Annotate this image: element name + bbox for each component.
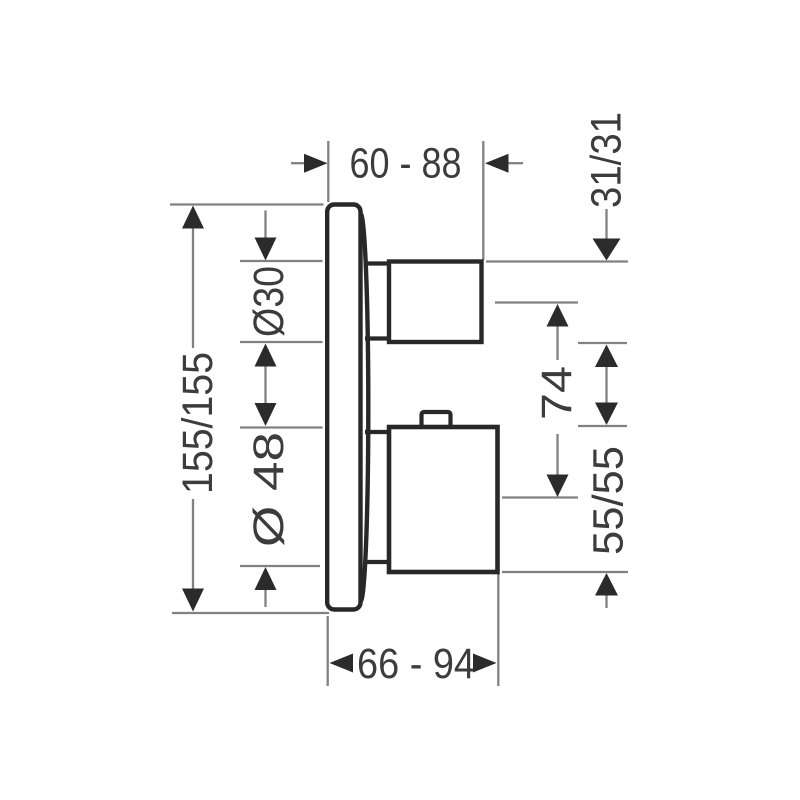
wire centerline-knob1 [495,301,578,303]
stem upper [365,264,390,339]
wire ext-66-94-left [327,616,329,686]
wire dim-60-88-right-tail [508,162,523,164]
wire centerline-knob2 [502,496,578,498]
stem lower [365,432,390,562]
arrow left-double up [255,344,277,367]
wire ext-d48-top [240,426,323,428]
svg-text:74: 74 [533,366,581,420]
tab on lower knob [422,412,451,428]
wire ext-66-94-right [497,574,499,686]
wire dim-right-double-shaft [605,366,607,404]
wire ext-d48-bottom [240,565,320,567]
wire dim-d30-shaft-top [264,211,266,241]
escutcheon plate [327,205,368,610]
arrow 66-94 right [473,654,497,673]
wire ext-d30-bottom [240,341,323,343]
svg-text:31/31: 31/31 [583,112,631,208]
wire dim-55-55-shaft [605,594,607,608]
arrow d48 bottom [255,567,277,590]
wire dim-74-shaft-bottom [556,434,558,475]
wire ext-knob2-bottom-right [502,571,628,573]
arrow d30 top [255,238,277,261]
knob upper [389,262,482,343]
arrow 60-88 left [304,154,328,173]
wire ext-d30-top [240,260,323,262]
arrow 155 top [182,206,204,229]
svg-text:Ø 48: Ø 48 [245,432,293,547]
arrow 74 down [547,475,569,498]
arrow 55-55 up [595,573,618,596]
wire ext-knob2-top-right [578,425,627,427]
wire dim-60-88-left-tail [291,162,305,164]
wire ext-knob1-bottom-right [578,342,627,344]
wire dim-74-shaft-top [556,325,558,360]
wire dim-d48-shaft-bottom [264,589,266,607]
knob lower [389,427,498,572]
wire dim-31-31-shaft [605,209,607,240]
svg-text:155/155: 155/155 [174,352,222,494]
arrow 31-31 down [593,239,621,261]
arrow 155 bottom [182,589,204,612]
svg-text:66 - 94: 66 - 94 [357,640,475,688]
arrow left-double down [255,403,277,426]
wire dim-left-double-shaft [264,365,266,404]
arrow 60-88 right [485,154,509,173]
wire ext-60-88-left [327,141,329,202]
arrow 66-94 left [330,654,354,673]
arrow right-double up [595,345,618,368]
arrow right-double down [595,403,618,426]
wire ext-knob1-top-right [486,260,628,262]
wire dim-155-line-bottom [192,499,194,590]
wire ext-155-bottom [172,612,329,614]
wire ext-155-top [170,203,324,205]
svg-text:60 - 88: 60 - 88 [350,140,462,188]
svg-text:55/55: 55/55 [585,446,633,555]
arrow 74 up [547,304,569,327]
wire ext-60-88-right [482,141,484,260]
svg-text:Ø30: Ø30 [245,266,293,337]
wire dim-155-line-top [192,227,194,348]
